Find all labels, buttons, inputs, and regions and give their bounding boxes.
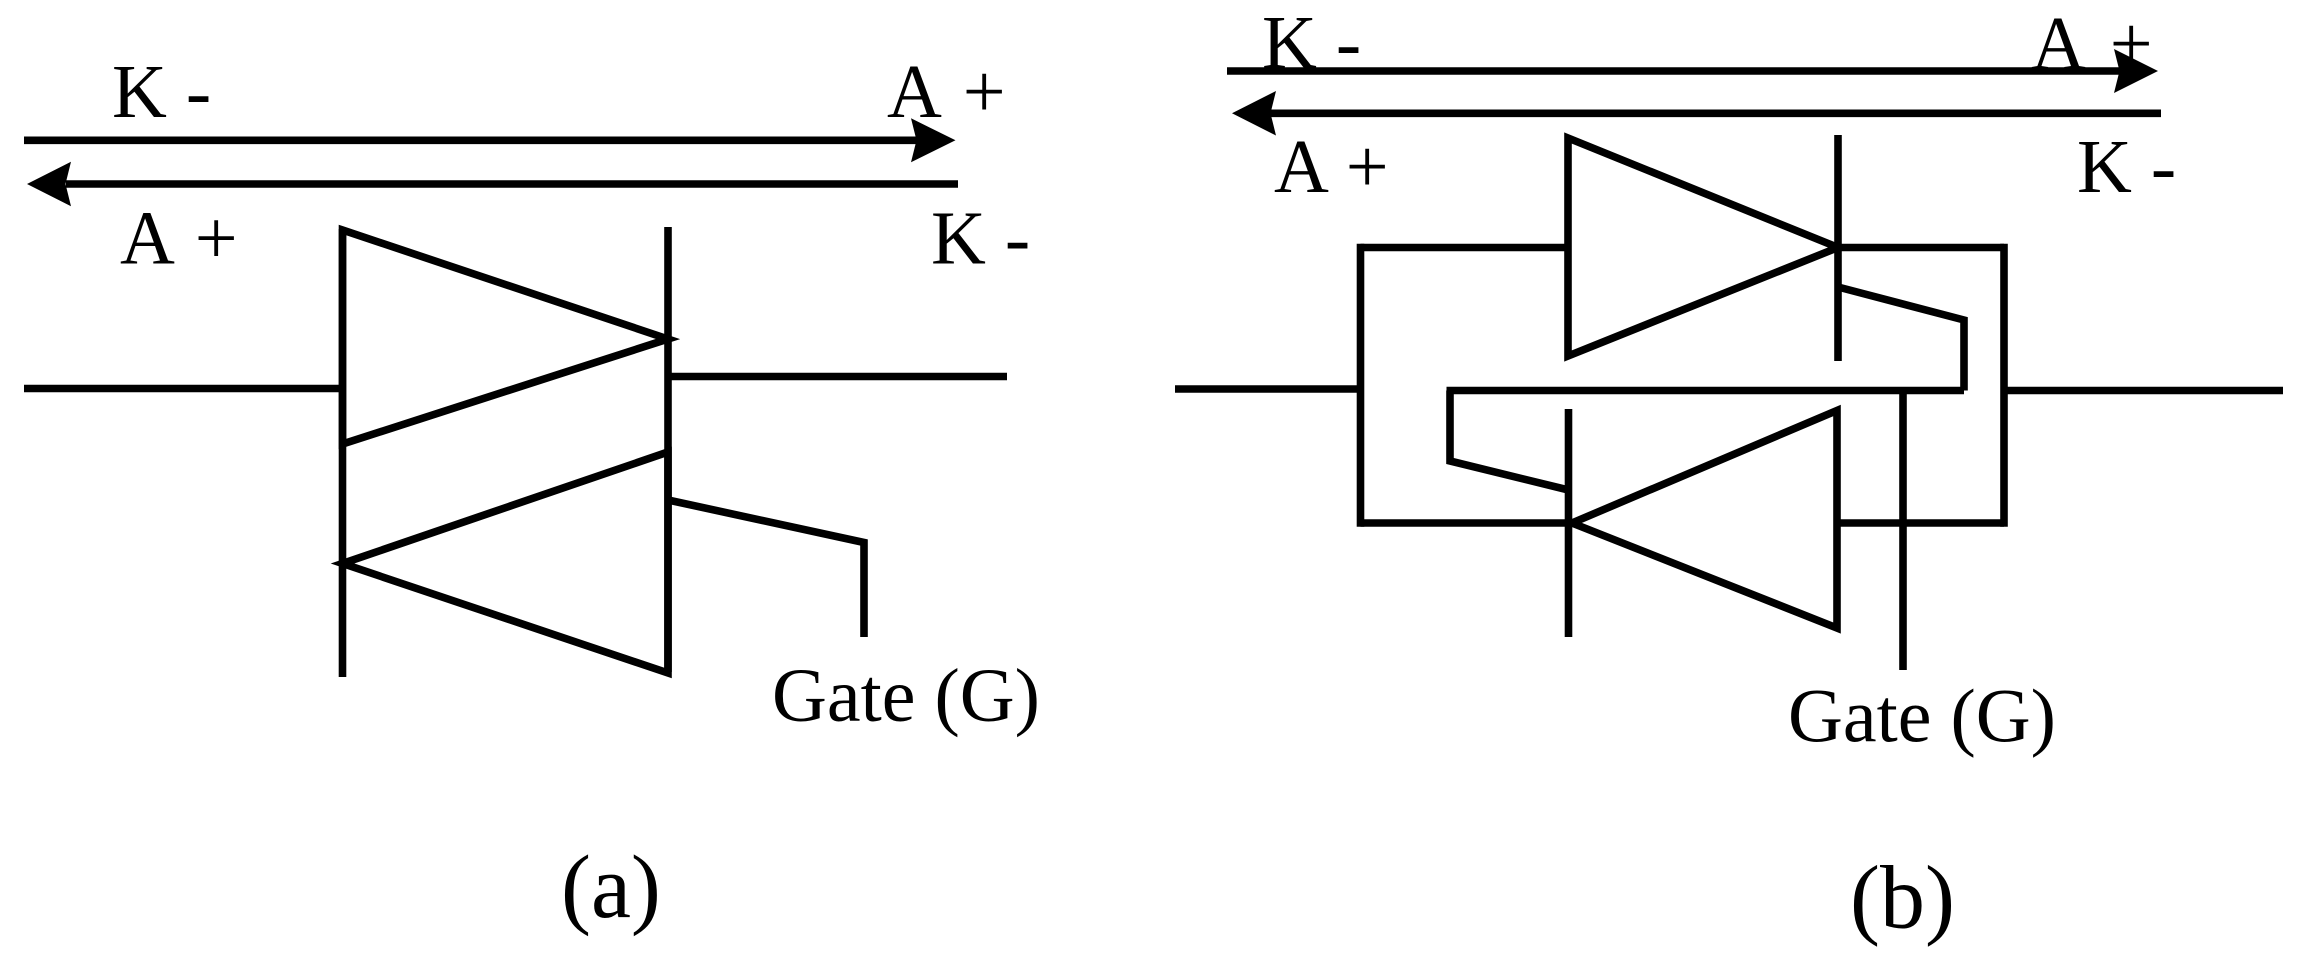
svg-text:K -: K -	[1262, 1, 1361, 85]
thyristor SCR1 cathode bar	[1834, 135, 1842, 361]
wire MT2 lead (right lead, fig a)	[668, 373, 1007, 381]
svg-text:(b): (b)	[1850, 849, 1955, 948]
svg-text:Gate (G): Gate (G)	[772, 654, 1040, 738]
svg-text:A +: A +	[887, 50, 1006, 134]
wire loop bottom-right horizontal	[1837, 519, 2004, 527]
gate terminal wire (vertical, fig b)	[1899, 391, 1907, 671]
svg-text:A +: A +	[120, 197, 238, 281]
svg-text:K -: K -	[931, 197, 1030, 281]
triac upper triangle (points right)	[343, 230, 669, 444]
thyristor SCR1 triangle (upper, points right)	[1568, 138, 1838, 356]
current arrow K->A (top, pointing right)	[24, 118, 956, 162]
wire loop left vertical	[1357, 244, 1365, 527]
wire right lead (fig b)	[2004, 387, 2283, 395]
wire loop right vertical	[2000, 244, 2008, 527]
wire left lead (fig b)	[1175, 385, 1361, 393]
svg-text:K -: K -	[112, 50, 211, 134]
wire loop top-left horizontal	[1361, 244, 1569, 252]
svg-text:A +: A +	[2031, 2, 2153, 86]
gate lead wire (fig a)	[668, 500, 864, 637]
gate bus wire (horizontal)	[1447, 387, 1965, 395]
wire loop top-right horizontal	[1838, 244, 2004, 252]
triac right electrode bar	[664, 227, 672, 672]
svg-text:A +: A +	[1274, 125, 1389, 209]
gate wire of SCR2 (vertical + diagonal zigzag)	[1450, 391, 1569, 491]
triac left electrode bar	[339, 229, 347, 677]
gate wire of SCR1 (diagonal + vertical elbow)	[1838, 287, 1964, 391]
svg-text:Gate (G): Gate (G)	[1788, 675, 2056, 759]
thyristor SCR2 triangle (lower, points left)	[1572, 411, 1837, 629]
wire loop bottom-left horizontal	[1361, 519, 1569, 527]
wire MT1 lead (left lead, fig a)	[24, 385, 343, 393]
svg-text:K -: K -	[2077, 125, 2176, 209]
current arrow A->K (second, pointing left)	[27, 162, 958, 207]
svg-text:(a): (a)	[561, 838, 661, 937]
thyristor SCR2 cathode bar	[1565, 409, 1573, 637]
triac lower triangle (points left)	[343, 452, 669, 673]
current arrow A->K (second, pointing left, fig b)	[1232, 91, 2161, 136]
current arrow K->A (top, pointing right, fig b)	[1227, 49, 2158, 93]
